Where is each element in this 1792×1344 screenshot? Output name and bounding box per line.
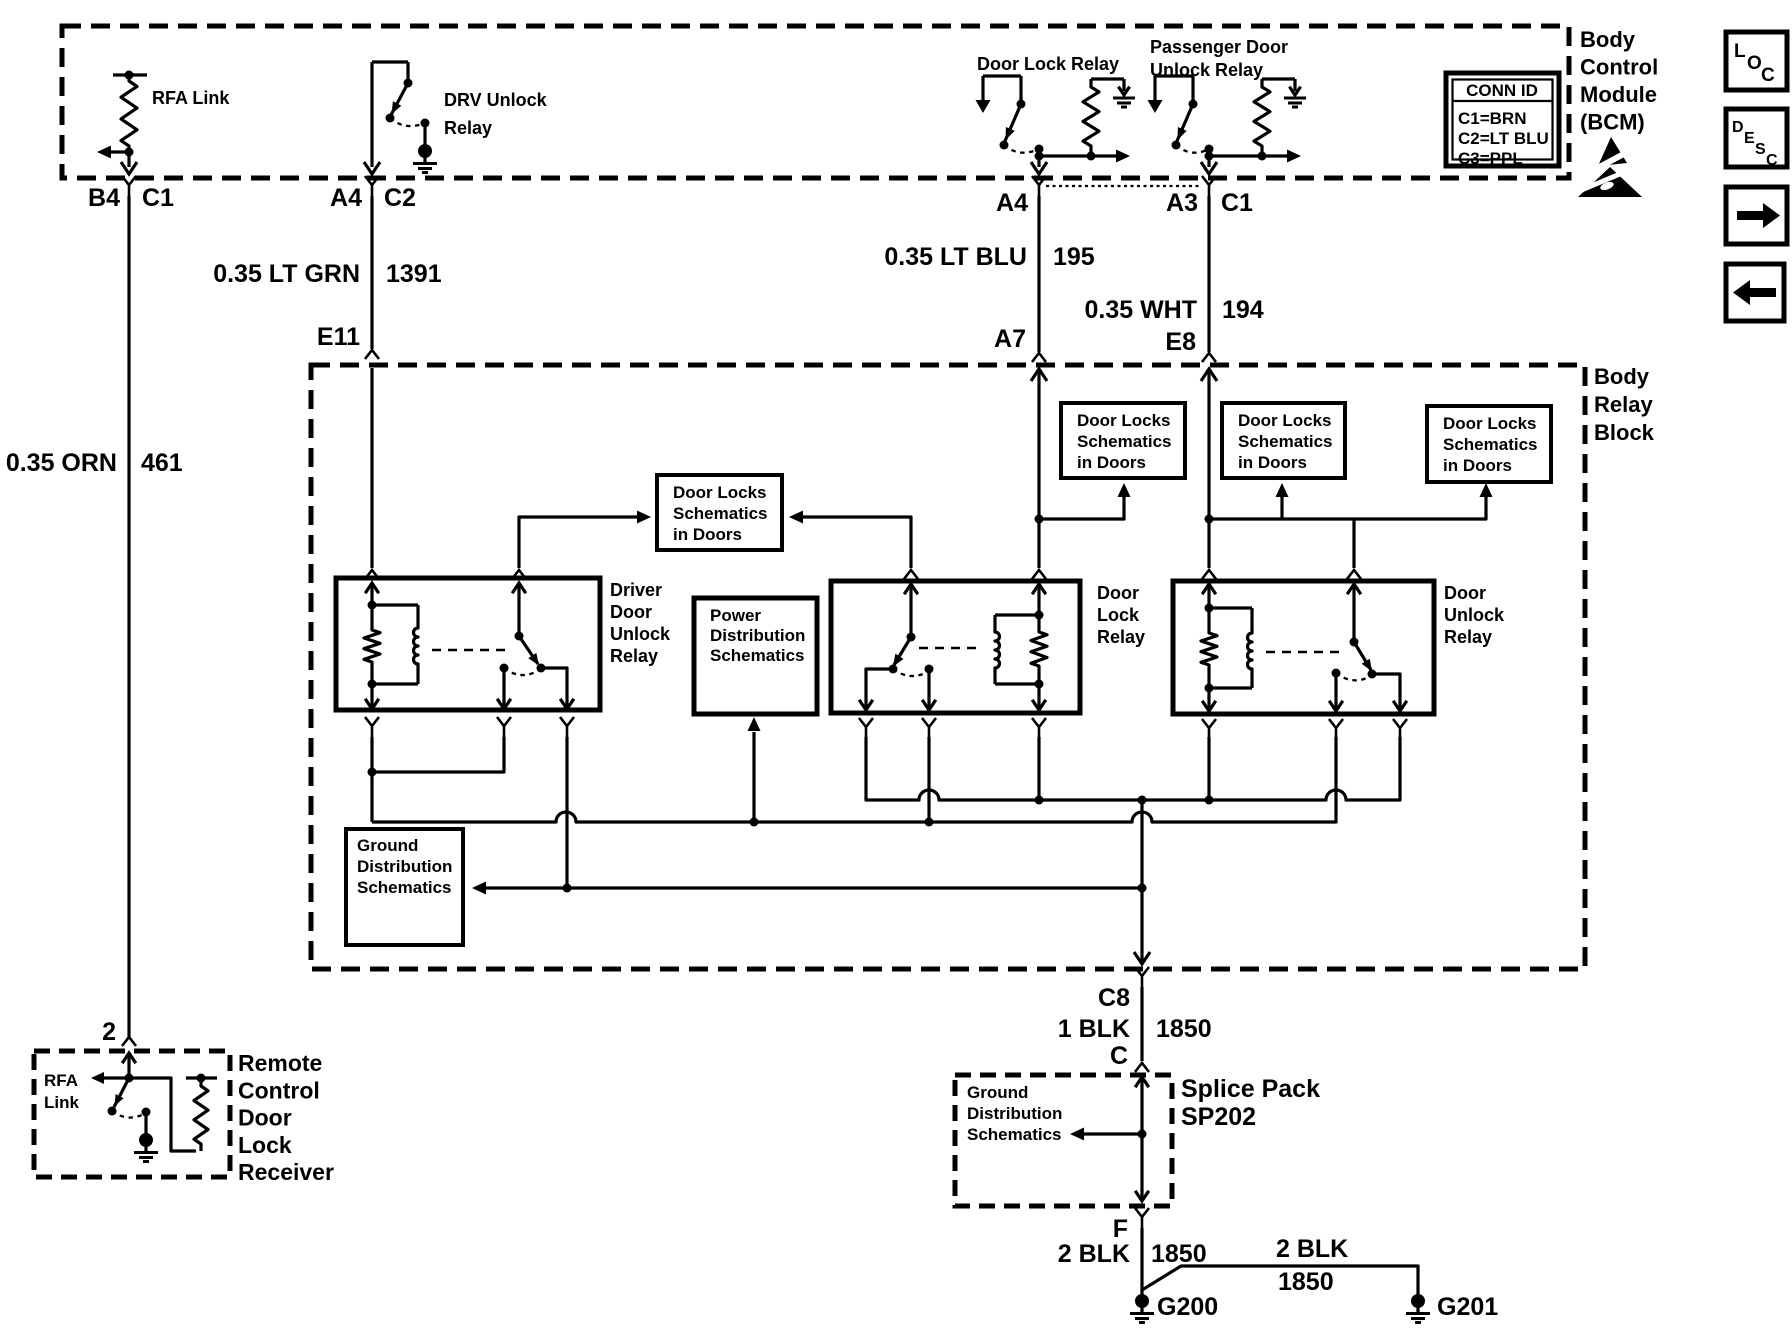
antenna top bar	[186, 1076, 217, 1079]
Body Relay Block dashed enclosure	[311, 365, 1585, 969]
wire thrown contact to pin 1	[859, 669, 893, 710]
wire driver switch to reference box	[519, 517, 637, 568]
wire coil to pin A bottom	[1202, 688, 1216, 711]
svg-text:1850: 1850	[1151, 1240, 1207, 1268]
connector chevron above switch pin	[904, 570, 918, 579]
svg-text:Schematics: Schematics	[1238, 432, 1333, 451]
svg-text:in Doors: in Doors	[1238, 453, 1307, 472]
connector chevron below pin 3	[1032, 718, 1046, 738]
relay box Driver Door Unlock Relay	[336, 578, 600, 710]
svg-text:C8: C8	[1098, 984, 1130, 1012]
switch arm door unlock relay	[1354, 642, 1372, 672]
svg-text:(BCM): (BCM)	[1580, 110, 1645, 135]
svg-text:L: L	[1734, 41, 1746, 62]
connector chevron below pin 3	[560, 717, 574, 737]
connector chevron above switch pin	[512, 570, 526, 579]
svg-text:1850: 1850	[1278, 1268, 1334, 1296]
wire driver pin3 down	[565, 737, 568, 888]
resistor element door unlock relay	[1201, 608, 1217, 688]
dashed coil-switch link	[432, 649, 510, 652]
contact dot (thrown)	[1000, 141, 1009, 150]
Remote receiver dashed enclosure	[34, 1051, 230, 1177]
wire E11 into relay block	[370, 368, 373, 568]
connector pin A7	[994, 325, 1046, 362]
wire E8 into relay block	[1201, 369, 1217, 568]
arrow into Power Distribution Schematics	[748, 717, 761, 731]
label wire 0.35 LT GRN 1391	[213, 260, 442, 288]
wire contact stem	[1019, 76, 1022, 104]
wire A7 branch to reference box	[1039, 494, 1124, 519]
connector arrow at BCM pin A4-C1	[1031, 162, 1047, 174]
connector arrow at C8 exit	[1134, 952, 1150, 964]
connector chevron below pin 1	[365, 717, 379, 737]
wire coil to pin 1 bottom	[365, 684, 379, 709]
svg-text:194: 194	[1222, 296, 1264, 324]
connector chevron below pin 2	[922, 718, 936, 738]
contact dot thrown	[1368, 670, 1377, 679]
contact dot pin 2	[925, 665, 934, 674]
switch arm receiver	[114, 1078, 129, 1107]
coil bottom bar	[372, 682, 418, 685]
svg-text:Distribution: Distribution	[710, 626, 805, 645]
wire 1850 (1 BLK) C8 to splice	[1140, 987, 1143, 1061]
coil top bar	[1091, 77, 1124, 80]
pin arrow into relay (switch)	[1347, 584, 1361, 642]
ground G200	[1135, 1294, 1149, 1308]
pivot dot door unlock switch	[1350, 638, 1359, 647]
contact dot thrown	[537, 664, 546, 673]
contact dot DRV unlock relay	[404, 79, 413, 88]
wire contact to ball ground	[423, 123, 426, 145]
wire 1391 (0.35 LT GRN) A4 to E11	[370, 196, 373, 349]
wire 195 (0.35 LT BLU) A4 to A7	[1037, 196, 1040, 352]
connector pin A4 of C1	[996, 176, 1046, 217]
svg-text:Schematics: Schematics	[1077, 432, 1172, 451]
svg-text:Relay: Relay	[1444, 627, 1492, 647]
svg-text:in Doors: in Doors	[673, 525, 742, 544]
svg-text:O: O	[1747, 53, 1762, 74]
wire driver pin1-pin2 tie	[372, 737, 504, 772]
label Driver Door Unlock Relay	[610, 580, 671, 666]
dashed travel arc DRV unlock relay	[390, 118, 425, 126]
svg-text:Ground: Ground	[357, 836, 418, 855]
junction dot pin3 on bus	[1035, 796, 1044, 805]
svg-text:in Doors: in Doors	[1443, 456, 1512, 475]
ground Passenger relay coil	[1289, 87, 1300, 95]
pivot dot door lock switch	[907, 633, 916, 642]
svg-text:Control: Control	[238, 1077, 320, 1103]
svg-text:F: F	[1113, 1215, 1128, 1243]
wire 1850 (2 BLK) to G200	[1140, 1228, 1143, 1295]
coil top bar	[1262, 77, 1295, 80]
Passenger relay top bar	[1155, 74, 1193, 77]
reference box Power Distribution Schematics	[694, 598, 817, 714]
wire output to coil bottom	[1209, 154, 1260, 157]
coil (resistor) Door Lock Relay	[1083, 79, 1099, 156]
svg-text:Power: Power	[710, 606, 761, 625]
wire 194 (0.35 WHT) A3 to E8	[1207, 196, 1210, 352]
wire relay output down to pin A4	[1037, 149, 1040, 167]
junction dot RFA link top	[125, 71, 134, 80]
svg-text:in Doors: in Doors	[1077, 453, 1146, 472]
svg-text:Block: Block	[1594, 420, 1655, 445]
inductor element driver relay	[414, 605, 418, 684]
arrow up into reference box (lock B)	[1276, 483, 1289, 519]
label Door Unlock Relay (block)	[1444, 583, 1505, 647]
wire output to coil bottom	[1039, 154, 1089, 157]
svg-text:2: 2	[102, 1018, 116, 1046]
svg-text:Relay: Relay	[1097, 627, 1145, 647]
svg-text:RFA Link: RFA Link	[152, 88, 230, 108]
wire switch to antenna resistor	[129, 1078, 196, 1151]
arrow to RFA circuitry (left)	[97, 146, 111, 159]
contact dot to ground (receiver)	[142, 1108, 151, 1117]
contact dot thrown	[889, 665, 898, 674]
wire E8 branch to reference boxes	[1209, 494, 1486, 519]
connector chevron above relay pin 1	[365, 570, 379, 579]
svg-text:195: 195	[1053, 243, 1095, 271]
reference box Door Locks Schematics in Doors (driver)	[657, 475, 782, 550]
label DRV Unlock Relay	[444, 90, 548, 138]
contact dot (thrown)	[386, 114, 395, 123]
button next (right arrow)	[1726, 187, 1787, 244]
wire contact to pin 2	[497, 668, 511, 709]
svg-text:Door Lock Relay: Door Lock Relay	[977, 54, 1119, 74]
svg-text:A3: A3	[1166, 189, 1198, 217]
label Remote Control Door Lock Receiver	[238, 1050, 334, 1185]
RFA Link resistor top bar	[113, 73, 147, 76]
ground Door Lock Relay coil	[1118, 87, 1129, 95]
wire RFA link down to pin B4	[127, 152, 130, 167]
dashed travel arc door lock relay	[1004, 145, 1039, 153]
svg-text:Relay: Relay	[610, 646, 658, 666]
svg-text:Module: Module	[1580, 82, 1657, 107]
label wire 0.35 LT BLU 195	[884, 243, 1094, 271]
svg-text:E11: E11	[317, 323, 360, 351]
connector chevron below pin 2	[497, 717, 511, 737]
wire lock bus (y822)	[372, 737, 1336, 822]
svg-text:1391: 1391	[386, 260, 442, 288]
svg-text:Splice Pack: Splice Pack	[1181, 1075, 1320, 1103]
coil top bar	[1209, 606, 1252, 609]
svg-text:Distribution: Distribution	[357, 857, 452, 876]
ESD sensitivity symbol (small triangle)	[1592, 137, 1633, 171]
svg-text:Door: Door	[1444, 583, 1486, 603]
svg-text:Unlock: Unlock	[610, 624, 671, 644]
svg-text:C: C	[1766, 152, 1778, 169]
wire A7 into relay block	[1031, 369, 1047, 568]
arrow feed (right) passenger relay	[1287, 150, 1301, 163]
pin arrow into relay (coil side)	[1202, 584, 1216, 608]
CONN ID table	[1446, 73, 1559, 168]
svg-text:Door Locks: Door Locks	[1238, 411, 1332, 430]
svg-text:Door Locks: Door Locks	[1443, 414, 1537, 433]
svg-text:A4: A4	[996, 189, 1028, 217]
svg-text:Door: Door	[610, 602, 652, 622]
wire door lock pin2 down	[927, 737, 930, 822]
svg-text:Driver: Driver	[610, 580, 662, 600]
arrow into driver reference box	[637, 511, 651, 524]
svg-text:RFA: RFA	[44, 1071, 78, 1090]
junction dot output/coil	[1035, 152, 1044, 161]
svg-text:E8: E8	[1165, 328, 1196, 356]
coil bottom bar	[1209, 686, 1252, 689]
svg-text:0.35 ORN: 0.35 ORN	[6, 449, 117, 477]
label wire 0.35 WHT 194	[1084, 296, 1263, 324]
connector chevron below pin A	[1202, 719, 1216, 739]
wire unlock pin A down	[1207, 737, 1210, 800]
reference box Door Locks Schematics in Doors (lock B)	[1222, 403, 1345, 478]
contact dot thrown (receiver)	[108, 1107, 117, 1116]
contact dot on output	[1035, 145, 1044, 154]
wire 461 (0.35 ORN) B4 to receiver	[127, 196, 130, 1037]
wire up to power distribution arrow	[752, 732, 755, 822]
switch arm DRV Unlock Relay	[391, 83, 408, 115]
contact dot pin 2	[500, 664, 509, 673]
wire branch to G201	[1142, 1266, 1418, 1295]
arrow to RFA Link (receiver)	[91, 1072, 104, 1084]
wire RFA link to internal arrow	[106, 150, 129, 153]
wire thrown contact to pin C	[1372, 674, 1407, 711]
switch arm Passenger Door Unlock Relay	[1177, 104, 1193, 141]
connector pin A4 of C2	[330, 176, 416, 212]
junction dot unlock pin A	[1205, 796, 1214, 805]
svg-text:Remote: Remote	[238, 1050, 322, 1076]
pin arrow into relay (coil side)	[365, 583, 379, 605]
svg-text:CONN ID: CONN ID	[1466, 81, 1538, 100]
wire ground distribution bus (y888)	[486, 886, 1142, 889]
junction dot driver pin3 on ground bus	[563, 884, 572, 893]
wire splice to ground distribution arrow	[1084, 1132, 1142, 1135]
relay feed stub with down arrow	[1148, 76, 1163, 113]
wire driver pin1 down	[370, 737, 373, 772]
button LOC	[1726, 32, 1787, 90]
arrow into reference box (left)	[789, 511, 803, 524]
ball ground DRV unlock relay	[418, 144, 432, 158]
wire coil to ground	[1293, 79, 1296, 91]
wire DRV unlock relay output down	[370, 62, 373, 167]
label Body Relay Block	[1594, 364, 1655, 445]
label wire 2 BLK 1850	[1058, 1240, 1207, 1268]
connector pin C	[1110, 1042, 1149, 1072]
svg-text:Distribution: Distribution	[967, 1104, 1062, 1123]
junction dot coil top	[1035, 611, 1044, 620]
connector chevron below pin B	[1329, 719, 1343, 739]
svg-text:Door Locks: Door Locks	[673, 483, 767, 502]
svg-text:461: 461	[141, 449, 183, 477]
wire thrown contact to pin 3	[541, 668, 574, 709]
svg-text:A7: A7	[994, 325, 1026, 353]
svg-text:C2=LT BLU: C2=LT BLU	[1458, 129, 1549, 148]
svg-text:Ground: Ground	[967, 1083, 1028, 1102]
svg-text:2 BLK: 2 BLK	[1058, 1240, 1130, 1268]
coil bottom bar	[995, 682, 1039, 685]
Door Lock Relay top bar	[983, 74, 1021, 77]
pin arrow into relay (coil side)	[1032, 584, 1046, 615]
wire door lock pin1 down and east bus (y800)	[866, 737, 1400, 800]
svg-text:Passenger Door: Passenger Door	[1150, 37, 1288, 57]
connector pin 2 (receiver)	[102, 1018, 136, 1046]
label Body Control Module (BCM)	[1580, 27, 1658, 135]
wire driver junction down to bus	[370, 772, 373, 822]
Body Control Module (BCM) dashed enclosure	[62, 26, 1569, 178]
wire to RFA arrow	[103, 1076, 129, 1079]
junction dot pin2 on bus	[925, 818, 934, 827]
junction dot splice SP202	[1138, 1130, 1147, 1139]
svg-text:Door Locks: Door Locks	[1077, 411, 1171, 430]
svg-text:C: C	[1761, 65, 1775, 86]
svg-text:C2: C2	[384, 184, 416, 212]
resistor RFA antenna (receiver)	[194, 1078, 208, 1151]
resistor RFA Link	[121, 75, 137, 152]
contact dot pin B	[1332, 669, 1341, 678]
relay box Door Unlock Relay	[1173, 581, 1434, 714]
label wire 2 BLK 1850 (branch)	[1276, 1235, 1348, 1296]
junction dot E8 branch	[1205, 515, 1214, 524]
connector chevron above switch pin	[1347, 570, 1361, 579]
connector pin E11	[317, 323, 379, 359]
svg-text:Body: Body	[1594, 364, 1650, 389]
Splice Pack SP202 dashed enclosure	[955, 1075, 1172, 1206]
svg-text:SP202: SP202	[1181, 1103, 1256, 1131]
dashed travel arc driver switch	[504, 668, 539, 675]
svg-text:Unlock: Unlock	[1444, 605, 1505, 625]
connector pin A3 of C1	[1166, 176, 1253, 217]
contact dot (thrown)	[1172, 141, 1181, 150]
connector arrow splice exit	[1135, 1191, 1149, 1201]
svg-text:0.35 LT BLU: 0.35 LT BLU	[884, 243, 1027, 271]
wire coil to ground	[1122, 79, 1125, 91]
svg-text:G200: G200	[1157, 1293, 1218, 1321]
svg-text:Lock: Lock	[1097, 605, 1140, 625]
dashed travel arc receiver switch	[112, 1111, 146, 1118]
svg-text:E: E	[1744, 130, 1755, 147]
junction dot power distribution tap	[750, 818, 759, 827]
svg-text:Schematics: Schematics	[1443, 435, 1538, 454]
wire unlock switch up to branch	[1352, 519, 1355, 568]
svg-text:0.35 LT GRN: 0.35 LT GRN	[213, 260, 360, 288]
wire contact to ball ground	[144, 1112, 147, 1134]
contact dot door lock relay	[1017, 100, 1026, 109]
svg-text:1850: 1850	[1156, 1015, 1212, 1043]
switch arm door lock relay	[893, 637, 911, 667]
svg-text:2 BLK: 2 BLK	[1276, 1235, 1348, 1263]
ground G201	[1411, 1294, 1425, 1308]
wire contact to pin 2	[922, 669, 936, 710]
reference box Ground Distribution Schematics (block)	[346, 829, 463, 945]
inductor element door lock relay	[995, 615, 1000, 684]
svg-text:C1=BRN: C1=BRN	[1458, 109, 1527, 128]
arrow feed (right) door lock relay	[1116, 150, 1130, 163]
svg-text:C3=PPL: C3=PPL	[1458, 149, 1523, 168]
connector arrow at BCM pin A4-C2	[364, 162, 380, 174]
relay box Door Lock Relay	[831, 581, 1080, 713]
junction dot coil bottom	[368, 680, 377, 689]
ball ground receiver	[139, 1133, 153, 1147]
dashed travel arc passenger relay	[1176, 145, 1209, 153]
junction dot coil top	[368, 601, 377, 610]
resistor element driver relay	[364, 605, 380, 684]
pin arrow into relay (switch)	[904, 584, 918, 637]
junction dot coil bottom	[1205, 684, 1214, 693]
connector pin F	[1113, 1208, 1149, 1243]
junction dot coil bottom	[1087, 152, 1096, 161]
DRV Unlock Relay top bar	[372, 60, 408, 63]
dotted connector link A4-A3	[1046, 185, 1202, 187]
svg-text:Relay: Relay	[1594, 392, 1653, 417]
inductor element door unlock relay	[1248, 608, 1253, 688]
wire door lock pin3 down	[1037, 737, 1040, 800]
svg-text:A4: A4	[330, 184, 362, 212]
junction dot ground bus	[1138, 884, 1147, 893]
coil top bar	[995, 613, 1039, 616]
arrow to Ground Distribution Schematics (splice)	[1070, 1128, 1084, 1141]
connector chevron below pin 1	[859, 718, 873, 738]
label Passenger Door Unlock Relay	[1150, 37, 1288, 80]
connector pin C8	[1098, 967, 1149, 1012]
svg-text:Schematics: Schematics	[357, 878, 452, 897]
connector chevron below pin C	[1393, 719, 1407, 739]
switch arm driver relay	[519, 636, 539, 666]
svg-text:1 BLK: 1 BLK	[1058, 1015, 1130, 1043]
coil (resistor) Passenger relay	[1254, 79, 1270, 156]
label Door Lock Relay (block)	[1097, 583, 1145, 647]
connector arrow at BCM pin B4	[121, 162, 137, 174]
reference box Door Locks Schematics in Doors (lock A)	[1061, 403, 1185, 478]
label Splice Pack SP202	[1181, 1075, 1320, 1131]
pivot dot driver relay switch	[515, 632, 524, 641]
wire splice feed down to C8	[1140, 800, 1143, 964]
svg-text:C: C	[1110, 1042, 1128, 1070]
svg-text:C1: C1	[1221, 189, 1253, 217]
svg-text:B4: B4	[88, 184, 120, 212]
wire coil to pin 3 bottom	[1032, 684, 1046, 710]
wire relay output down to pin A3	[1207, 149, 1210, 167]
connector chevron above coil pin	[1202, 570, 1216, 579]
contact dot on output	[1205, 145, 1214, 154]
button DESC	[1726, 109, 1787, 169]
connector chevron above coil pin	[1032, 570, 1046, 579]
arrow up into reference box (lock A)	[1118, 483, 1131, 497]
reference box Door Locks Schematics in Doors (unlock)	[1427, 406, 1551, 482]
label Ground Distribution Schematics (splice)	[967, 1083, 1062, 1144]
wire into splice pack	[1135, 1077, 1149, 1200]
wire door lock switch to reference box	[801, 517, 911, 568]
wire coil bottom to feed arrow	[1091, 154, 1117, 157]
svg-text:D: D	[1732, 119, 1744, 136]
svg-text:Control: Control	[1580, 55, 1658, 80]
junction dot coil top	[1205, 604, 1214, 613]
svg-text:Receiver: Receiver	[238, 1159, 334, 1185]
label wire 1 BLK 1850	[1058, 1015, 1212, 1043]
label RFA Link (receiver)	[44, 1071, 79, 1112]
svg-text:DRV Unlock: DRV Unlock	[444, 90, 548, 110]
svg-text:Schematics: Schematics	[673, 504, 768, 523]
svg-text:Body: Body	[1580, 27, 1636, 52]
ESD sensitivity symbol (large triangle with hand)	[1572, 167, 1642, 197]
svg-text:0.35 WHT: 0.35 WHT	[1084, 296, 1197, 324]
junction dot receiver switch	[125, 1074, 134, 1083]
svg-text:G201: G201	[1437, 1293, 1498, 1321]
connector arrow at BCM pin A3-C1	[1201, 162, 1217, 174]
svg-text:Schematics: Schematics	[710, 646, 805, 665]
wire coil bottom to feed arrow	[1262, 154, 1288, 157]
junction dot coil bottom	[1035, 680, 1044, 689]
dashed travel arc door lock switch	[893, 669, 929, 676]
svg-text:Lock: Lock	[238, 1132, 292, 1158]
junction dot RFA link bottom	[125, 148, 134, 157]
svg-text:S: S	[1755, 141, 1766, 158]
